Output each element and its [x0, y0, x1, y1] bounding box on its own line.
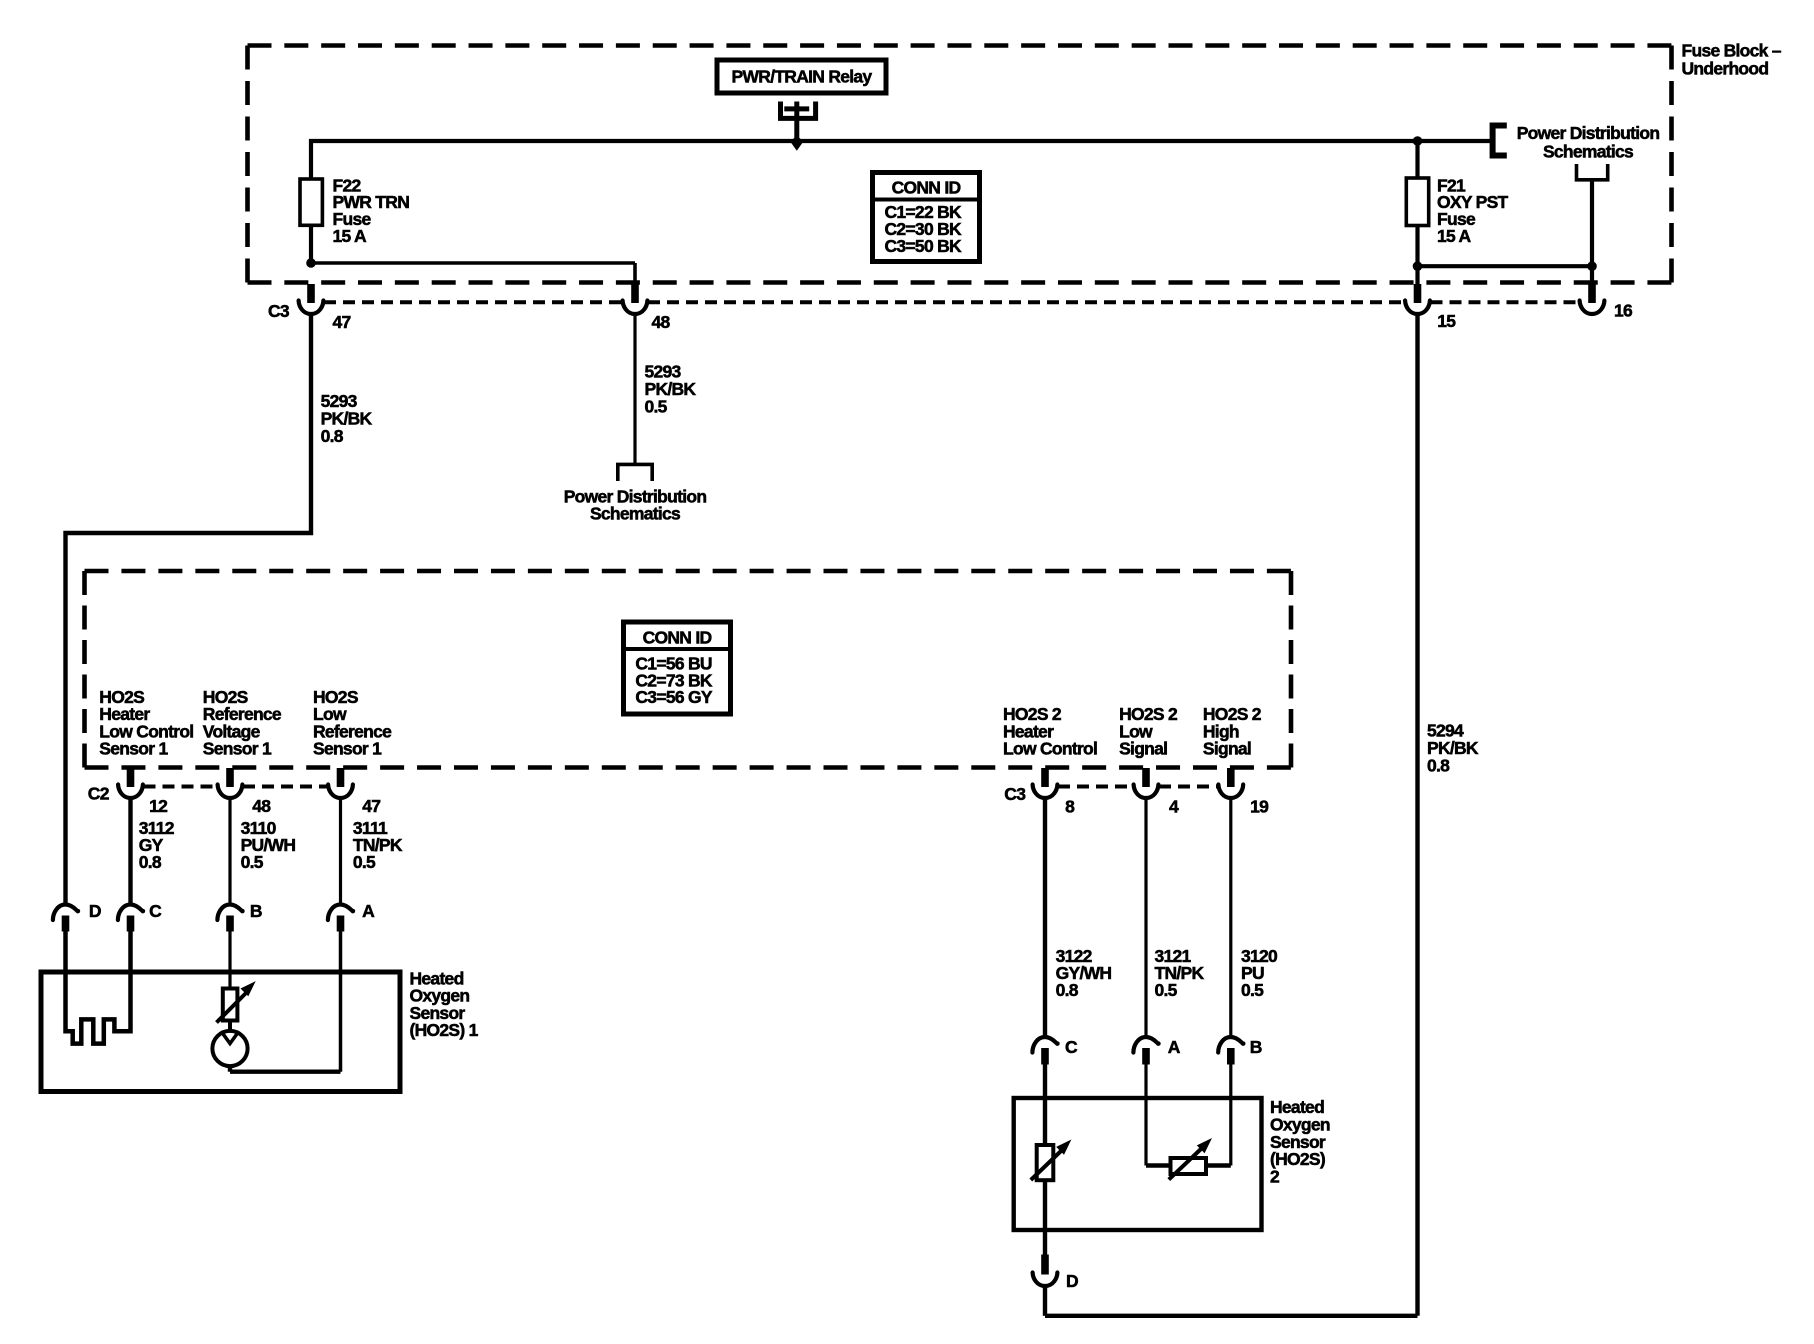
svg-text:8: 8: [1065, 796, 1075, 816]
svg-text:0.5: 0.5: [241, 852, 264, 872]
svg-text:0.8: 0.8: [139, 852, 162, 872]
svg-text:48: 48: [652, 312, 671, 332]
svg-text:0.5: 0.5: [1155, 980, 1178, 1000]
svg-text:A: A: [1168, 1037, 1181, 1057]
svg-text:0.8: 0.8: [321, 426, 344, 446]
svg-text:C3=50 BK: C3=50 BK: [885, 236, 963, 256]
svg-text:Power Distribution: Power Distribution: [1517, 123, 1660, 143]
svg-text:0.8: 0.8: [1056, 980, 1079, 1000]
svg-text:16: 16: [1614, 301, 1633, 321]
svg-text:0.5: 0.5: [1241, 980, 1264, 1000]
svg-text:12: 12: [149, 796, 168, 816]
svg-text:C3: C3: [1004, 784, 1026, 804]
svg-text:D: D: [1066, 1271, 1078, 1291]
svg-text:19: 19: [1250, 796, 1269, 816]
svg-text:(HO2S) 1: (HO2S) 1: [410, 1020, 479, 1040]
svg-text:Schematics: Schematics: [590, 504, 681, 524]
svg-text:2: 2: [1270, 1167, 1280, 1187]
svg-text:C2: C2: [88, 784, 110, 804]
svg-text:15: 15: [1437, 311, 1456, 331]
svg-text:PWR/TRAIN Relay: PWR/TRAIN Relay: [732, 67, 873, 87]
svg-text:15 A: 15 A: [333, 226, 368, 246]
svg-text:CONN ID: CONN ID: [643, 628, 712, 648]
svg-text:C3=56 GY: C3=56 GY: [635, 687, 712, 707]
svg-text:0.5: 0.5: [645, 397, 668, 417]
svg-text:C3: C3: [268, 301, 290, 321]
svg-text:C: C: [149, 901, 162, 921]
svg-text:0.5: 0.5: [353, 852, 376, 872]
svg-text:Signal: Signal: [1203, 739, 1251, 759]
svg-text:47: 47: [333, 312, 351, 332]
svg-text:Sensor 1: Sensor 1: [313, 739, 382, 759]
svg-text:4: 4: [1169, 796, 1179, 816]
svg-text:Schematics: Schematics: [1543, 142, 1634, 162]
svg-text:B: B: [250, 901, 262, 921]
svg-text:48: 48: [252, 796, 271, 816]
svg-text:D: D: [89, 901, 101, 921]
svg-text:C: C: [1065, 1037, 1078, 1057]
svg-text:Underhood: Underhood: [1682, 59, 1769, 79]
svg-text:15 A: 15 A: [1437, 226, 1472, 246]
svg-text:Sensor 1: Sensor 1: [203, 739, 272, 759]
svg-text:B: B: [1250, 1037, 1262, 1057]
svg-text:47: 47: [362, 796, 380, 816]
svg-text:0.8: 0.8: [1427, 755, 1450, 775]
svg-text:Fuse Block –: Fuse Block –: [1682, 41, 1782, 61]
svg-text:A: A: [362, 901, 375, 921]
svg-text:Sensor 1: Sensor 1: [99, 739, 168, 759]
svg-text:Signal: Signal: [1119, 739, 1167, 759]
svg-text:CONN ID: CONN ID: [892, 177, 961, 197]
svg-text:Low Control: Low Control: [1003, 739, 1097, 759]
